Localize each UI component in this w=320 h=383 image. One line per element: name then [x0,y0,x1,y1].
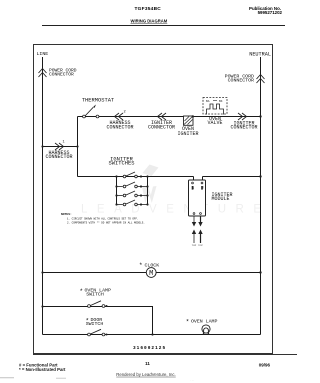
svg-text:2. COMPONENTS WITH ** DO NOT A: 2. COMPONENTS WITH ** DO NOT APPEAR IN A… [67,220,145,224]
svg-text:316002125: 316002125 [133,346,166,351]
svg-text:CLOCK: CLOCK [145,262,160,268]
svg-text:OVEN LAMP: OVEN LAMP [191,319,217,325]
svg-text:CONNECTOR: CONNECTOR [45,154,72,160]
door switch [88,329,108,336]
wire left drop x77 [77,117,79,177]
igniter module feeds [193,177,195,182]
svg-text:1. CIRCUIT SHOWN WITH ALL CONT: 1. CIRCUIT SHOWN WITH ALL CONTROLS SET T… [67,217,139,220]
wire bottom row [43,334,261,336]
clock motor M1 [146,268,156,278]
wire right neutral bus [260,57,262,335]
junction switches row / neutral [259,175,261,177]
igniter connector right [238,113,247,120]
wire clock row [43,272,261,274]
svg-text:CONNECTOR: CONNECTOR [49,71,74,77]
switch S1 [115,172,148,178]
electrode arrows down [192,222,196,227]
thermostat TH1 [83,105,99,118]
junction harness/drop [76,145,78,147]
harness connector (row, pin 2) [115,113,124,120]
svg-text:. ...: . ... [190,378,194,382]
diagram frame [34,45,273,354]
svg-text:11: 11 [145,361,150,366]
wire left line bus [42,57,44,335]
svg-text:1: 1 [63,141,65,145]
svg-text:BK: BK [219,99,223,103]
watermark logo [142,165,159,204]
oven lamp switch [88,301,108,308]
wire oven lamp switch row [43,307,153,335]
switch S3 [115,191,148,197]
svg-text:2: 2 [124,111,126,115]
power cord connector right [257,75,265,84]
bottom rule [33,354,297,356]
power cord connector left [39,69,47,78]
rail left [116,177,118,205]
oven igniter (hatched) [184,115,195,125]
svg-text:NOTES:: NOTES: [61,213,72,216]
junction thermostat row / neutral [259,115,261,117]
harness connector branch (pin 1) [43,146,78,148]
rail right [147,177,149,205]
svg-text:LEADVENTURE: LEADVENTURE [81,204,271,216]
svg-text:NEUTRAL: NEUTRAL [249,52,271,58]
svg-text:CONNECTOR: CONNECTOR [148,124,175,130]
spark electrode leads [194,216,201,223]
faint footer mark [0,377,14,379]
svg-text:BA: BA [206,99,210,103]
svg-text:CONNECTOR: CONNECTOR [230,125,257,131]
oven lamp L1 [202,325,210,335]
svg-text:THERMOSTAT: THERMOSTAT [82,98,115,104]
igniter switches bank [115,172,148,206]
svg-text:CONNECTOR: CONNECTOR [106,124,133,130]
svg-text:M: M [149,270,153,278]
header rule [42,25,285,27]
svg-text:TGF354BC: TGF354BC [135,6,162,12]
wire thermostat row [78,116,261,118]
svg-text:WIRING DIAGRAM: WIRING DIAGRAM [131,19,168,24]
svg-text:TOP: TOP [192,245,197,247]
burner arrows up [192,230,196,235]
svg-text:SWITCH: SWITCH [86,291,104,297]
svg-text:Rendered by LeadVenture, Inc.: Rendered by LeadVenture, Inc. [116,372,175,377]
svg-text:MODULE: MODULE [212,196,230,202]
svg-text:CONNECTOR: CONNECTOR [228,77,254,83]
wire switches row [78,176,194,178]
svg-text:5995271202: 5995271202 [258,10,283,15]
igniter module U1 [189,180,206,216]
oven valve (dashed box with coil) [203,98,227,115]
switch S4 [115,200,148,206]
switch S2 [115,182,148,188]
svg-text:IGNITER: IGNITER [177,131,198,137]
svg-text:SWITCHES: SWITCHES [109,160,135,166]
svg-text:* = Non-Illustrated Part: * = Non-Illustrated Part [19,367,66,372]
igniter connector left [158,113,167,120]
svg-text:VALVE: VALVE [207,120,222,126]
svg-text:TOP: TOP [198,245,203,247]
svg-text:LINE: LINE [37,51,49,57]
svg-text:SWITCH: SWITCH [86,321,104,327]
svg-text:09/96: 09/96 [259,362,271,367]
